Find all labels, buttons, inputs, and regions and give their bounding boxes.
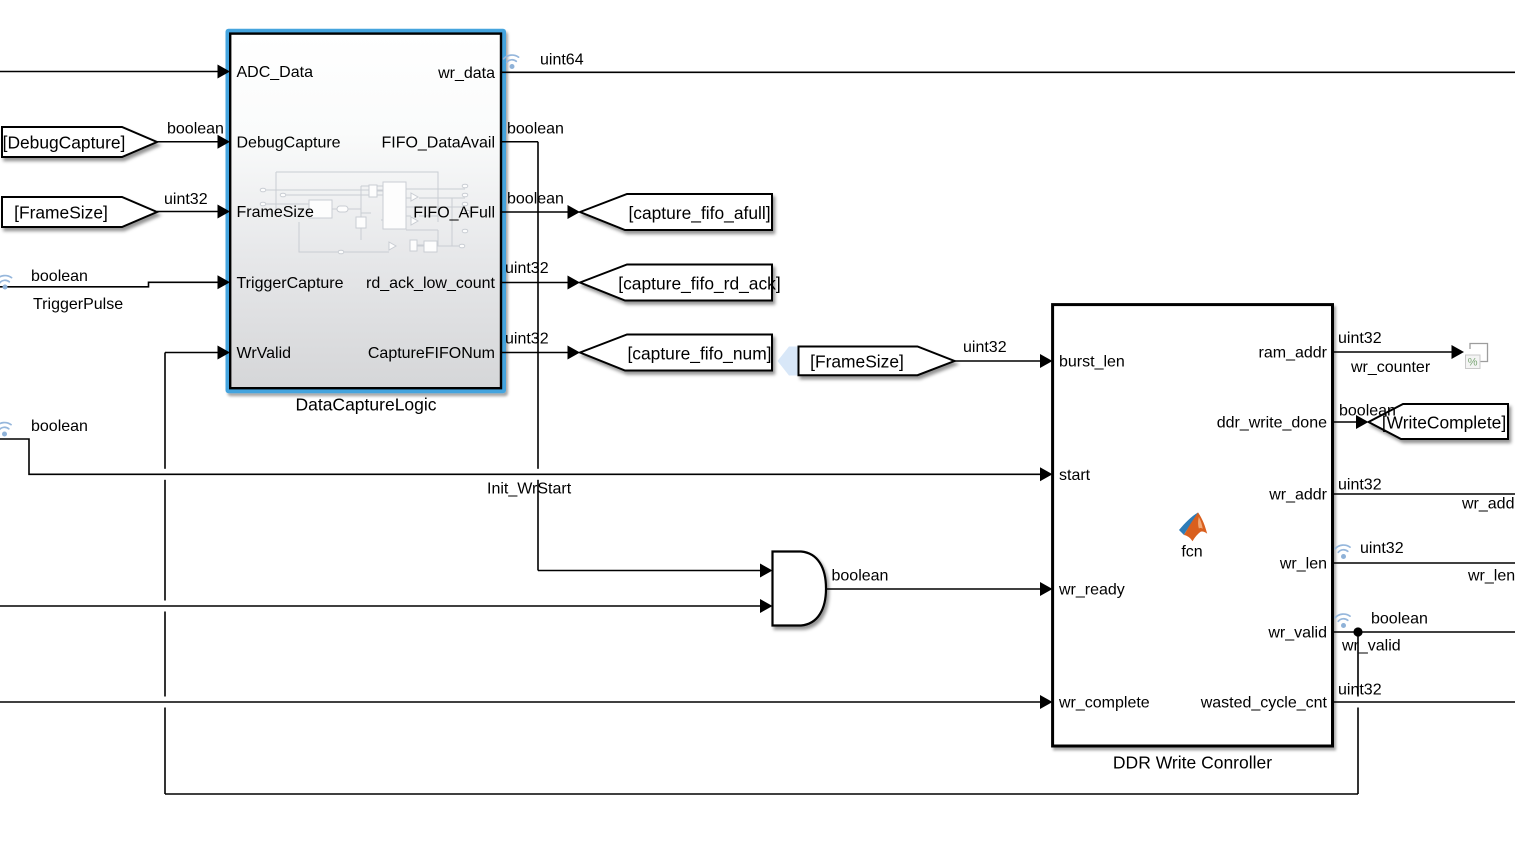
svg-text:wr_addr: wr_addr	[1268, 487, 1327, 504]
svg-text:wasted_cycle_cnt: wasted_cycle_cnt	[1200, 695, 1328, 712]
svg-text:boolean: boolean	[31, 268, 88, 285]
svg-text:wr_len: wr_len	[1279, 556, 1327, 573]
svg-text:uint32: uint32	[1338, 682, 1382, 699]
svg-text:DataCaptureLogic: DataCaptureLogic	[295, 395, 436, 415]
svg-text:DebugCapture: DebugCapture	[237, 134, 341, 151]
svg-text:rd_ack_low_count: rd_ack_low_count	[366, 275, 496, 292]
svg-text:wr_data: wr_data	[437, 65, 495, 82]
svg-text:ADC_Data: ADC_Data	[237, 64, 314, 81]
svg-text:uint32: uint32	[1338, 330, 1382, 347]
svg-text:WrValid: WrValid	[237, 345, 292, 362]
svg-text:wr_complete: wr_complete	[1058, 695, 1150, 712]
svg-text:uint32: uint32	[505, 260, 549, 277]
svg-text:[capture_fifo_num]: [capture_fifo_num]	[627, 343, 771, 363]
svg-text:boolean: boolean	[31, 418, 88, 435]
svg-text:start: start	[1059, 467, 1091, 484]
svg-text:ddr_write_done: ddr_write_done	[1217, 415, 1327, 432]
svg-text:ram_addr: ram_addr	[1259, 345, 1328, 362]
svg-text:uint32: uint32	[505, 331, 549, 348]
svg-text:boolean: boolean	[507, 121, 564, 138]
svg-text:[FrameSize]: [FrameSize]	[14, 203, 108, 223]
svg-text:[FrameSize]: [FrameSize]	[810, 352, 904, 372]
svg-text:[WriteComplete]: [WriteComplete]	[1382, 412, 1506, 432]
svg-text:boolean: boolean	[167, 121, 224, 138]
svg-text:wr_len: wr_len	[1467, 568, 1515, 585]
svg-text:boolean: boolean	[1371, 611, 1428, 628]
svg-text:burst_len: burst_len	[1059, 354, 1125, 371]
svg-text:uint32: uint32	[164, 191, 208, 208]
svg-text:Init_WrStart: Init_WrStart	[487, 481, 572, 498]
svg-text:wr_counter: wr_counter	[1350, 359, 1431, 376]
svg-text:wr_ready: wr_ready	[1058, 582, 1125, 599]
svg-text:TriggerCapture: TriggerCapture	[237, 275, 344, 292]
svg-text:[DebugCapture]: [DebugCapture]	[3, 133, 126, 153]
svg-text:wr_valid: wr_valid	[1267, 625, 1327, 642]
svg-text:[capture_fifo_rd_ack]: [capture_fifo_rd_ack]	[618, 273, 780, 293]
svg-text:wr_addr: wr_addr	[1461, 496, 1515, 513]
svg-text:uint64: uint64	[540, 52, 584, 69]
svg-text:FIFO_AFull: FIFO_AFull	[413, 205, 495, 222]
svg-text:uint32: uint32	[1338, 477, 1382, 494]
svg-text:%: %	[1468, 357, 1478, 369]
svg-text:DDR Write Conroller: DDR Write Conroller	[1113, 753, 1272, 773]
svg-text:CaptureFIFONum: CaptureFIFONum	[368, 345, 495, 362]
svg-text:fcn: fcn	[1181, 544, 1202, 561]
svg-text:wr_valid: wr_valid	[1341, 638, 1401, 655]
svg-text:boolean: boolean	[832, 568, 889, 585]
svg-text:TriggerPulse: TriggerPulse	[33, 296, 123, 313]
svg-text:uint32: uint32	[963, 339, 1007, 356]
svg-text:uint32: uint32	[1360, 540, 1404, 557]
svg-text:[capture_fifo_afull]: [capture_fifo_afull]	[628, 203, 770, 223]
svg-text:FIFO_DataAvail: FIFO_DataAvail	[381, 134, 495, 151]
svg-text:boolean: boolean	[507, 191, 564, 208]
svg-text:FrameSize: FrameSize	[237, 204, 314, 221]
